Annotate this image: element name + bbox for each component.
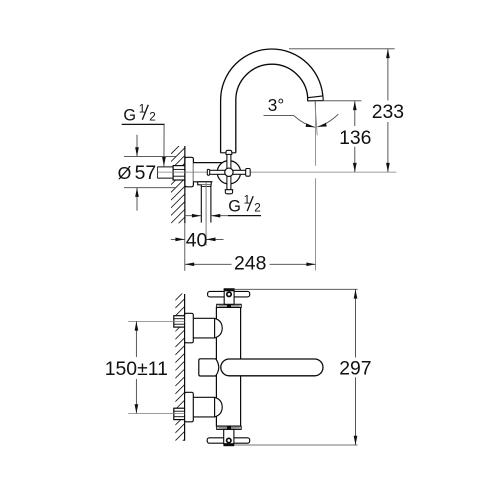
wall face line (top view) <box>184 146 186 223</box>
dim 297 line top <box>355 289 357 357</box>
3° leader line <box>264 114 294 116</box>
wall face line (front view) <box>184 294 186 441</box>
spout aerator cap <box>308 96 324 101</box>
dim 136 line top <box>354 101 356 126</box>
svg-text:248: 248 <box>234 253 266 275</box>
lower S-union <box>193 397 222 417</box>
lower handle bar <box>207 438 250 443</box>
leader arrow G 1/2 wall <box>163 124 165 166</box>
valve body (top view) <box>193 163 227 182</box>
lower handle cap <box>223 444 234 447</box>
label G 1/2 (wall connection) <box>122 102 165 124</box>
Ø57 lower arrow <box>136 188 138 211</box>
svg-text:G: G <box>228 198 241 216</box>
3 degree tilted line <box>315 101 317 135</box>
svg-text:G: G <box>123 106 136 124</box>
label G 1/2 (outlet) <box>228 194 261 216</box>
upper handle post <box>224 289 234 305</box>
spout gooseneck tube <box>221 49 323 153</box>
spout (front view) <box>221 359 323 376</box>
297 lower extension line <box>234 444 358 446</box>
outlet pipe (top view) <box>201 185 211 223</box>
3° left arc arrow <box>294 115 315 127</box>
dim 40 left arrow <box>171 238 185 240</box>
3° right arc arrow <box>317 114 338 127</box>
handle horizontal spoke <box>209 170 246 174</box>
G1/2 outlet left arrow <box>185 215 201 217</box>
svg-text:233: 233 <box>372 101 404 123</box>
upper supply centerline <box>128 320 184 322</box>
svg-text:40: 40 <box>186 229 208 251</box>
lower supply centerline <box>128 412 184 414</box>
escutcheon flange (top view) <box>185 157 194 187</box>
297 upper extension line <box>234 288 357 290</box>
svg-text:297: 297 <box>339 357 371 379</box>
outlet pipe centerline <box>205 182 207 245</box>
faucet axis centerline <box>158 171 397 173</box>
svg-text:2: 2 <box>254 202 261 215</box>
upper union nut (front view) <box>174 316 185 327</box>
wall hatching (front view) <box>175 291 184 449</box>
handle horizontal spoke left cap <box>207 169 209 175</box>
Ø57 lower extension line <box>124 187 176 189</box>
dim 150±11 lower arrow <box>135 379 137 413</box>
supply pipe stub (top view) <box>157 167 173 178</box>
Ø57 upper arrow <box>136 135 138 157</box>
svg-text:3°: 3° <box>268 95 284 115</box>
wall extension line below <box>184 223 186 271</box>
lower handle knob <box>227 438 231 442</box>
outlet step (top view) <box>198 182 212 185</box>
union nut (top view) <box>173 166 185 180</box>
upper bonnet ring <box>217 304 242 308</box>
G1/2 outlet right arrow <box>211 215 228 217</box>
outlet centerline extended <box>315 101 317 166</box>
spout tube bottom joint <box>221 152 236 154</box>
svg-text:Ø: Ø <box>118 163 132 183</box>
dim 297 line bottom <box>355 377 357 445</box>
handle vertical spoke bottom cap <box>225 190 232 194</box>
lower escutcheon (front view) <box>185 392 194 422</box>
spout top extension line <box>289 48 395 50</box>
svg-text:136: 136 <box>339 127 371 149</box>
handle vertical spoke <box>227 154 231 190</box>
upper handle knob <box>227 292 231 296</box>
wall hatching (top view) <box>171 140 185 254</box>
svg-text:150±11: 150±11 <box>105 358 168 380</box>
svg-text:57: 57 <box>135 162 157 184</box>
dim 248 line right <box>270 263 316 265</box>
handle circle (top view) <box>217 161 240 184</box>
lower handle post <box>224 429 234 443</box>
dim 150±11 upper arrow <box>135 321 137 357</box>
upper handle cap <box>224 289 234 292</box>
handle center knob <box>225 168 233 176</box>
upper handle bar <box>208 291 250 297</box>
upper S-union <box>193 318 222 338</box>
diverter knob <box>199 359 219 376</box>
dim 233 line top <box>387 49 389 101</box>
dim 233 line bottom <box>387 122 389 172</box>
spout outlet extension line <box>316 100 361 102</box>
lower bonnet ring <box>217 426 242 430</box>
svg-text:2: 2 <box>149 110 156 123</box>
handle horizontal spoke right cap <box>246 169 251 177</box>
Ø57 upper extension line <box>124 155 176 157</box>
upper escutcheon (front view) <box>185 313 194 343</box>
mixer body (front view) <box>216 307 240 426</box>
dim 136 line bottom <box>354 147 356 173</box>
lower union nut (front view) <box>174 408 185 419</box>
dim 248 line left <box>185 263 232 265</box>
handle vertical spoke top cap <box>226 150 232 154</box>
dim 40 right arrow <box>206 238 223 240</box>
